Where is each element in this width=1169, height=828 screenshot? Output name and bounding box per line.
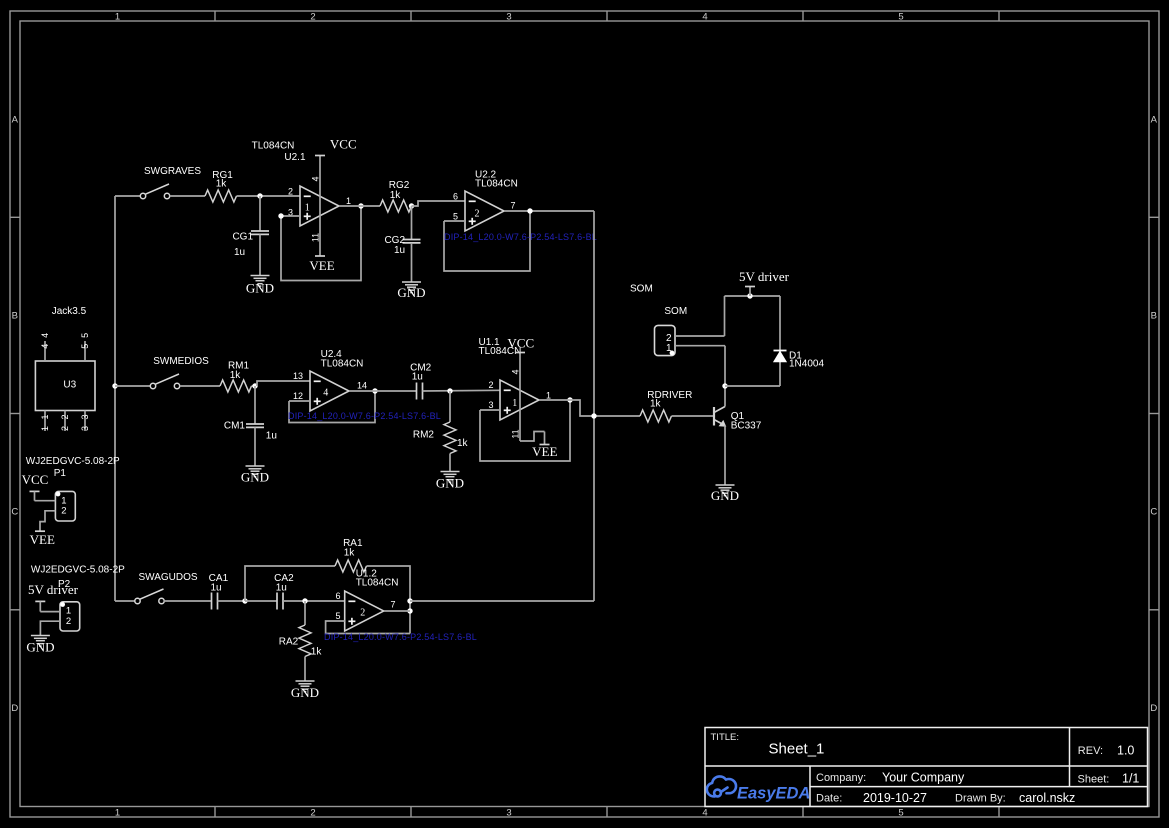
svg-text:1u: 1u (234, 247, 245, 258)
svg-text:7: 7 (510, 201, 515, 211)
svg-text:GND: GND (397, 285, 425, 300)
svg-text:4: 4 (702, 12, 707, 23)
svg-text:3: 3 (80, 414, 90, 419)
svg-text:C: C (1150, 507, 1157, 518)
svg-text:SWMEDIOS: SWMEDIOS (153, 356, 209, 367)
svg-text:2: 2 (475, 208, 480, 219)
svg-text:SWGRAVES: SWGRAVES (144, 166, 201, 177)
svg-text:Sheet:: Sheet: (1078, 774, 1110, 786)
svg-text:C: C (11, 507, 18, 518)
svg-text:Company:: Company: (816, 772, 866, 784)
svg-text:11: 11 (511, 429, 521, 438)
svg-text:4: 4 (702, 808, 707, 819)
svg-text:1.0: 1.0 (1117, 744, 1134, 758)
svg-text:6: 6 (335, 591, 340, 601)
svg-text:SWAGUDOS: SWAGUDOS (138, 572, 197, 583)
svg-text:DIP-14_L20.0-W7.6-P2.54-LS7.6-: DIP-14_L20.0-W7.6-P2.54-LS7.6-BL (444, 232, 597, 242)
svg-text:1: 1 (40, 414, 50, 419)
svg-text:B: B (1151, 311, 1157, 322)
svg-text:1: 1 (305, 203, 310, 214)
svg-text:GND: GND (711, 488, 739, 503)
svg-text:1k: 1k (390, 190, 402, 201)
svg-text:U2.1: U2.1 (284, 152, 306, 163)
svg-text:4: 4 (511, 369, 521, 374)
svg-text:1u: 1u (394, 245, 405, 256)
svg-text:1: 1 (546, 391, 551, 401)
svg-text:1: 1 (115, 808, 120, 819)
svg-text:Jack3.5: Jack3.5 (52, 306, 87, 317)
svg-text:2019-10-27: 2019-10-27 (863, 791, 927, 805)
svg-text:B: B (12, 311, 18, 322)
svg-text:1k: 1k (311, 646, 323, 657)
svg-text:A: A (12, 115, 19, 126)
svg-text:1: 1 (512, 398, 517, 409)
svg-text:CM1: CM1 (224, 420, 246, 431)
svg-text:7: 7 (390, 600, 395, 610)
svg-text:12: 12 (293, 391, 303, 401)
svg-text:Your Company: Your Company (882, 771, 965, 785)
svg-text:2: 2 (66, 616, 71, 627)
svg-text:4: 4 (40, 333, 50, 338)
svg-text:GND: GND (246, 281, 274, 296)
svg-text:WJ2EDGVC-5.08-2P: WJ2EDGVC-5.08-2P (26, 456, 120, 467)
svg-text:VCC: VCC (330, 137, 357, 152)
svg-text:1N4004: 1N4004 (789, 358, 824, 369)
svg-text:1/1: 1/1 (1122, 772, 1139, 786)
svg-text:5: 5 (80, 344, 90, 349)
svg-text:A: A (1151, 115, 1158, 126)
svg-text:TL084CN: TL084CN (475, 179, 518, 190)
svg-text:VCC: VCC (507, 335, 534, 350)
svg-text:carol.nskz: carol.nskz (1019, 791, 1075, 805)
svg-text:1k: 1k (457, 438, 469, 449)
svg-text:D: D (11, 703, 18, 714)
svg-text:1: 1 (115, 12, 120, 23)
svg-text:1k: 1k (216, 179, 228, 190)
svg-text:Drawn By:: Drawn By: (955, 793, 1006, 805)
svg-text:4: 4 (323, 387, 328, 398)
svg-text:VEE: VEE (532, 444, 557, 459)
svg-text:1u: 1u (266, 431, 277, 442)
svg-text:1k: 1k (230, 370, 242, 381)
svg-text:2: 2 (60, 414, 70, 419)
svg-text:GND: GND (436, 476, 464, 491)
svg-text:5: 5 (898, 808, 903, 819)
svg-text:D: D (1150, 703, 1157, 714)
svg-text:5V driver: 5V driver (28, 582, 79, 597)
svg-text:1k: 1k (650, 398, 662, 409)
svg-text:3: 3 (506, 808, 511, 819)
svg-text:3: 3 (506, 12, 511, 23)
svg-text:5: 5 (80, 333, 90, 338)
svg-text:DIP-14_L20.0-W7.6-P2.54-LS7.6-: DIP-14_L20.0-W7.6-P2.54-LS7.6-BL (324, 632, 477, 642)
svg-text:1u: 1u (210, 583, 221, 594)
svg-text:3: 3 (80, 426, 90, 431)
svg-text:DIP-14_L20.0-W7.6-P2.54-LS7.6-: DIP-14_L20.0-W7.6-P2.54-LS7.6-BL (288, 411, 441, 421)
svg-text:GND: GND (26, 640, 54, 655)
svg-text:Date:: Date: (816, 793, 842, 805)
svg-text:VCC: VCC (22, 472, 49, 487)
svg-text:RA2: RA2 (279, 637, 299, 648)
svg-text:Sheet_1: Sheet_1 (769, 741, 825, 758)
svg-text:SOM: SOM (630, 283, 653, 294)
svg-text:GND: GND (241, 470, 269, 485)
svg-text:U3: U3 (63, 380, 76, 391)
svg-text:1: 1 (346, 196, 351, 206)
svg-text:BC337: BC337 (731, 420, 762, 431)
svg-text:1: 1 (40, 426, 50, 431)
svg-text:2: 2 (61, 506, 66, 517)
svg-text:2: 2 (288, 187, 293, 197)
svg-text:4: 4 (311, 176, 321, 181)
svg-text:5: 5 (898, 12, 903, 23)
svg-text:P1: P1 (54, 468, 67, 479)
svg-text:TL084CN: TL084CN (252, 141, 295, 152)
svg-text:13: 13 (293, 371, 303, 381)
svg-text:SOM: SOM (664, 306, 687, 317)
svg-text:TL084CN: TL084CN (356, 577, 399, 588)
svg-text:REV:: REV: (1078, 745, 1103, 757)
svg-text:2: 2 (310, 12, 315, 23)
svg-text:3: 3 (488, 400, 493, 410)
svg-text:1u: 1u (412, 372, 423, 383)
svg-text:5: 5 (453, 211, 458, 221)
svg-text:RM2: RM2 (413, 430, 435, 441)
svg-text:VEE: VEE (30, 532, 55, 547)
svg-text:14: 14 (357, 381, 367, 391)
svg-text:1k: 1k (344, 548, 356, 559)
svg-text:4: 4 (40, 344, 50, 349)
svg-text:VEE: VEE (309, 258, 334, 273)
svg-text:2: 2 (360, 608, 365, 619)
svg-text:GND: GND (291, 685, 319, 700)
svg-text:5V driver: 5V driver (739, 269, 790, 284)
svg-text:CG1: CG1 (232, 232, 253, 243)
svg-text:2: 2 (60, 426, 70, 431)
svg-text:11: 11 (311, 233, 321, 242)
svg-text:TITLE:: TITLE: (711, 732, 740, 743)
svg-text:2: 2 (488, 380, 493, 390)
svg-text:WJ2EDGVC-5.08-2P: WJ2EDGVC-5.08-2P (31, 565, 125, 576)
svg-text:TL084CN: TL084CN (321, 358, 364, 369)
svg-text:1u: 1u (276, 583, 287, 594)
svg-text:2: 2 (310, 808, 315, 819)
svg-text:5: 5 (335, 611, 340, 621)
svg-text:EasyEDA: EasyEDA (737, 785, 810, 803)
svg-text:6: 6 (453, 191, 458, 201)
